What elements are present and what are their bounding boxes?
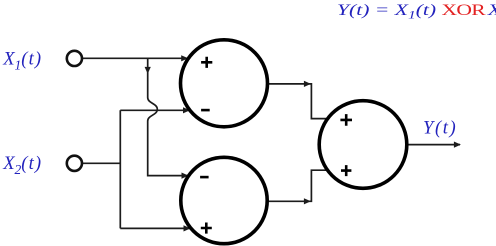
svg-text:Y(t) = X1(t) XOR X2(t): Y(t) = X1(t) XOR X2(t): [337, 1, 496, 21]
svg-text:Y(t): Y(t): [423, 118, 457, 139]
svg-text:X2(t): X2(t): [2, 153, 42, 177]
svg-text:X1(t): X1(t): [2, 49, 42, 73]
